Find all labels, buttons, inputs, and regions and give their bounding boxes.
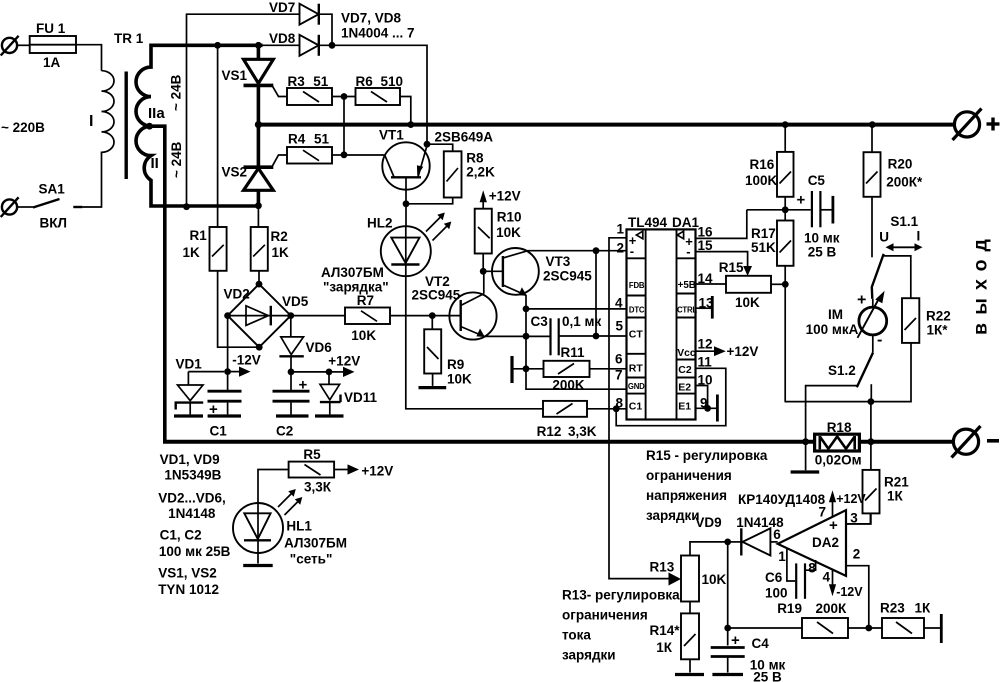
wire R21 net up [870, 402, 872, 442]
diode VD9 [728, 528, 778, 555]
pin numbers left [615, 222, 625, 411]
wire [400, 97, 411, 123]
transformer core [124, 72, 127, 180]
node [224, 312, 231, 319]
svg-text:+: + [797, 192, 806, 209]
switch S1.1 blade [872, 254, 884, 299]
svg-text:1К: 1К [887, 489, 904, 504]
svg-text:10 мк: 10 мк [804, 231, 840, 246]
potentiometer R15 [696, 276, 786, 293]
svg-text:51K: 51K [751, 240, 776, 255]
resistor R16 [777, 126, 794, 210]
resistor R23 [882, 618, 940, 638]
resistor R20 [864, 126, 881, 257]
svg-text:+12V: +12V [727, 344, 759, 359]
label VT2 [412, 274, 461, 303]
label R22 1K [926, 309, 951, 338]
svg-text:C4: C4 [752, 636, 770, 651]
wire feedback net [785, 343, 912, 402]
svg-text:АЛ307БМ: АЛ307БМ [284, 536, 347, 551]
svg-text:VD7: VD7 [269, 0, 295, 15]
label R11 200K [552, 345, 585, 393]
svg-text:II: II [151, 155, 159, 172]
wire pin16 [696, 210, 747, 239]
svg-text:100 мк 25В: 100 мк 25В [159, 544, 231, 559]
svg-text:1N4004 ... 7: 1N4004 ... 7 [341, 26, 415, 41]
wire pin2 [846, 566, 869, 628]
node tap [146, 123, 153, 130]
node [480, 268, 487, 275]
wire [332, 96, 356, 98]
svg-text:VT1: VT1 [379, 128, 404, 143]
svg-text:200К*: 200К* [886, 175, 923, 190]
wire center tap to negative rail [150, 126, 165, 442]
label R13 10K [650, 560, 727, 588]
node [865, 625, 872, 632]
svg-text:2SC945: 2SC945 [543, 269, 592, 284]
node [256, 344, 263, 351]
wire bridge left to C1 [227, 316, 229, 391]
svg-text:Vcc: Vcc [677, 348, 696, 359]
svg-text:10K: 10K [447, 372, 472, 387]
wire pin1 C6 [787, 549, 795, 582]
wire R4 to VT1 base [344, 154, 385, 156]
svg-text:+12V: +12V [328, 354, 360, 369]
label R19 200K [777, 601, 847, 616]
transformer TR1 primary winding I [102, 71, 115, 188]
svg-text:R15 - регулировка: R15 - регулировка [646, 448, 768, 463]
resistor R14 [681, 602, 699, 673]
arrow U-I double [886, 243, 923, 251]
wire R19 feed [728, 627, 802, 629]
svg-text:напряжения: напряжения [646, 488, 727, 503]
capacitor C5 [797, 191, 832, 227]
svg-text:12: 12 [698, 337, 713, 352]
meter IM [857, 291, 887, 353]
input terminal top [1, 36, 19, 56]
node [523, 365, 530, 372]
svg-text:6: 6 [615, 352, 623, 367]
svg-text:R1: R1 [190, 228, 208, 243]
svg-text:R17: R17 [751, 226, 776, 241]
svg-text:8: 8 [616, 396, 624, 411]
svg-text:S1.2: S1.2 [828, 363, 856, 378]
svg-text:7: 7 [615, 368, 623, 383]
label VT3 [543, 254, 592, 284]
svg-text:4: 4 [615, 296, 623, 311]
node [329, 42, 336, 49]
label R10 10K [496, 210, 521, 241]
node [287, 312, 294, 319]
svg-text:S1.1: S1.1 [890, 214, 918, 229]
label VD7 VD8 type [341, 11, 415, 41]
svg-text:6: 6 [773, 527, 781, 542]
wire VS1 gate [273, 86, 288, 96]
node [429, 312, 436, 319]
svg-text:-: - [877, 332, 882, 349]
svg-text:зарядки: зарядки [562, 648, 616, 663]
svg-text:0,1 мк: 0,1 мк [562, 314, 602, 329]
resistor R6 [356, 88, 401, 105]
svg-text:R16: R16 [750, 157, 775, 172]
resistor R5 [258, 462, 348, 503]
svg-text:+12V: +12V [361, 464, 393, 479]
resistor R17 [777, 210, 794, 402]
resistor R2 [251, 227, 268, 271]
label C6 100 [765, 570, 788, 601]
node [183, 203, 190, 210]
negative rail [163, 440, 953, 444]
IC DA1 TL494 body [627, 229, 696, 419]
svg-text:200K: 200K [552, 378, 585, 393]
wire [513, 368, 544, 370]
svg-text:VD11: VD11 [344, 390, 378, 405]
diode VD11 zener [320, 372, 341, 415]
wire [291, 371, 329, 373]
svg-text:~ 220В: ~ 220В [1, 120, 45, 135]
svg-text:HL1: HL1 [286, 519, 312, 534]
resistor R10 [475, 209, 492, 272]
power arrow -12V [231, 353, 261, 377]
svg-text:R22: R22 [926, 309, 951, 324]
node [255, 202, 262, 209]
wire VT3 collector to pin2 [527, 250, 626, 252]
label R18 0,02Om [815, 420, 862, 468]
svg-text:1K: 1K [272, 245, 290, 260]
svg-text:U: U [879, 230, 889, 245]
svg-text:0,02Ом: 0,02Ом [815, 453, 862, 468]
svg-text:10K: 10K [735, 295, 760, 310]
svg-text:зарядки: зарядки [646, 508, 700, 523]
diode VD7 [300, 4, 319, 25]
label R15 10K [719, 260, 760, 310]
svg-text:VD7, VD8: VD7, VD8 [341, 11, 402, 26]
label VD9 1N4148 [695, 515, 784, 530]
svg-text:DA2: DA2 [812, 535, 839, 550]
label R4 51 [288, 132, 330, 147]
svg-text:51: 51 [313, 74, 329, 89]
capacitor C4 [711, 632, 745, 673]
label R5 3,3K [303, 447, 331, 495]
wire VS2 gate [273, 155, 288, 166]
label TL494 DA1 [628, 215, 699, 230]
LED HL1 arrows [278, 489, 302, 515]
node [782, 206, 789, 213]
svg-text:1A: 1A [43, 55, 61, 70]
wire R3 R4 link [343, 97, 345, 155]
ground C2 [276, 414, 309, 417]
svg-text:1: 1 [778, 549, 786, 564]
svg-text:8: 8 [808, 561, 816, 576]
label FU1 [36, 21, 66, 70]
svg-text:VT3: VT3 [546, 254, 571, 269]
label R20 200K [886, 157, 923, 190]
svg-text:DTC: DTC [629, 306, 645, 315]
wire R2 top feed [257, 206, 259, 227]
svg-text:R23: R23 [880, 601, 905, 616]
svg-text:R4: R4 [288, 132, 306, 147]
svg-text:VS1: VS1 [222, 68, 248, 83]
wire VD8 cathode to VT1 emitter [319, 45, 427, 144]
svg-text:VD1: VD1 [176, 357, 203, 372]
svg-text:выход: выход [970, 231, 992, 335]
svg-text:RT: RT [629, 363, 644, 375]
wire R2 to bridge top [258, 271, 260, 284]
arrow R15 wiper [743, 266, 752, 276]
svg-text:1К: 1К [656, 640, 673, 655]
svg-text:CTRL: CTRL [677, 306, 697, 315]
svg-text:-12V: -12V [836, 585, 863, 599]
bridge VD2-VD5 diamond [228, 284, 291, 347]
svg-text:АЛ307БМ: АЛ307БМ [321, 265, 384, 280]
IC cell labels left [628, 231, 645, 412]
svg-text:C1: C1 [629, 401, 643, 413]
svg-text:R3: R3 [288, 74, 306, 89]
svg-text:C6: C6 [765, 570, 783, 585]
ground pin9 bar [716, 395, 719, 422]
resistor R19 [802, 618, 882, 638]
node [341, 151, 348, 158]
label R21 1K [884, 475, 909, 504]
svg-text:VD2...VD6,: VD2...VD6, [158, 491, 226, 506]
svg-text:VS1, VS2: VS1, VS2 [158, 566, 217, 581]
svg-text:C5: C5 [808, 173, 826, 188]
main positive bus [258, 123, 954, 127]
svg-text:"сеть": "сеть" [290, 552, 333, 567]
resistor R8 [444, 151, 462, 197]
node [424, 141, 431, 148]
svg-text:FDB: FDB [629, 281, 645, 290]
power arrow +12V pin12 [696, 344, 759, 359]
node [255, 42, 262, 49]
svg-text:TL494: TL494 [628, 215, 668, 230]
transistor VT1 [382, 142, 429, 204]
svg-text:11: 11 [698, 355, 713, 370]
wire [406, 198, 453, 204]
wire pin15 to R15 wiper [696, 252, 748, 267]
node [326, 369, 333, 376]
svg-text:E1: E1 [678, 401, 691, 413]
wire [319, 14, 332, 45]
svg-text:ограничения: ограничения [562, 608, 648, 623]
IC cell labels right [677, 231, 697, 412]
svg-text:C3: C3 [531, 314, 549, 329]
wire [332, 154, 344, 156]
svg-text:100: 100 [765, 586, 788, 601]
fuse FU1 [30, 36, 76, 53]
label IM 100mkA [806, 307, 859, 337]
svg-text:~ 24В: ~ 24В [169, 141, 184, 178]
svg-text:+5B: +5B [678, 280, 696, 291]
ground VD11 [315, 414, 344, 417]
node [256, 281, 263, 288]
wire R1 top feed [217, 45, 219, 227]
label U I [879, 229, 920, 245]
label C5 [804, 173, 840, 260]
svg-text:I: I [917, 229, 921, 244]
label AL307BM zaryadka [321, 265, 389, 295]
svg-text:~ 24В: ~ 24В [169, 74, 184, 111]
arrow R13 wiper [669, 573, 682, 586]
node [403, 200, 410, 207]
wire VD9 node to C4 [727, 542, 729, 646]
svg-text:510: 510 [381, 74, 404, 89]
svg-text:R18: R18 [827, 420, 852, 435]
ground VD1 [174, 414, 203, 417]
svg-text:25 В: 25 В [753, 670, 782, 682]
label R2 1K [271, 229, 290, 260]
svg-text:-: - [630, 244, 634, 259]
ground R18 [791, 442, 820, 472]
svg-text:R14*: R14* [650, 623, 681, 638]
svg-text:1К*: 1К* [927, 323, 949, 338]
label R23 1K [880, 601, 931, 616]
svg-text:+: + [731, 632, 740, 649]
svg-text:25 В: 25 В [808, 245, 837, 260]
svg-text:R8: R8 [466, 151, 484, 166]
wire pin4 [526, 308, 627, 310]
svg-text:КР140УД1408: КР140УД1408 [738, 492, 826, 507]
node [255, 121, 262, 128]
ground R23 bar [940, 614, 943, 643]
diode VD6 [279, 316, 303, 391]
diode VD1 zener [175, 372, 225, 415]
capacitor C6 [796, 560, 815, 599]
svg-text:2SC945: 2SC945 [412, 288, 461, 303]
svg-text:ограничения: ограничения [646, 468, 732, 483]
svg-text:3: 3 [850, 511, 858, 526]
svg-text:1N5349B: 1N5349B [164, 468, 221, 483]
svg-text:I: I [89, 113, 93, 130]
output terminal minus [952, 426, 1000, 458]
svg-text:+12V: +12V [836, 492, 866, 506]
svg-text:100K: 100K [745, 173, 778, 188]
label R14 1K [650, 623, 681, 655]
switch S1.2 blade [857, 353, 873, 388]
label R16 100K [745, 157, 778, 188]
node [782, 121, 789, 128]
LED HL2 arrows [426, 213, 451, 241]
wire VT2 emitter [484, 335, 550, 337]
svg-text:тока: тока [562, 628, 591, 643]
node [868, 398, 875, 405]
svg-text:10K: 10K [702, 572, 727, 587]
svg-text:E2: E2 [678, 382, 691, 394]
svg-text:R12: R12 [537, 424, 562, 439]
svg-text:200К: 200К [816, 601, 848, 616]
ground HL1 [243, 564, 273, 567]
node [782, 281, 789, 288]
wire S1.2 contact [870, 384, 872, 401]
LED HL2 [381, 226, 431, 276]
svg-text:IIa: IIa [148, 105, 165, 122]
wire HL2 cathode to R12 [406, 276, 543, 409]
svg-text:-: - [686, 244, 690, 259]
svg-text:R13- регулировка: R13- регулировка [562, 588, 680, 603]
svg-text:C2: C2 [276, 424, 293, 439]
svg-text:3,3K: 3,3K [568, 424, 597, 439]
svg-text:2,2K: 2,2K [466, 165, 495, 180]
svg-text:R19: R19 [777, 601, 802, 616]
resistor R9 [424, 316, 441, 386]
svg-text:SA1: SA1 [39, 182, 66, 197]
wire pin13 [696, 307, 712, 309]
capacitor C2 [273, 377, 310, 415]
svg-text:2: 2 [853, 547, 861, 562]
node [407, 121, 414, 128]
svg-text:R7: R7 [357, 293, 374, 308]
node -12V [224, 368, 231, 375]
svg-text:R9: R9 [447, 357, 464, 372]
wire VD7 feed [187, 14, 300, 207]
ground C4 [712, 673, 743, 676]
label R15 regulation note [646, 448, 768, 523]
ground C5 bar [832, 196, 835, 224]
label R1 1K [183, 228, 208, 260]
node [724, 539, 731, 546]
wire pin1 stub to R13 [609, 238, 669, 579]
thyristor VS2 [244, 125, 274, 206]
node [593, 333, 600, 340]
wire node to C5 [747, 209, 811, 211]
label R9 10K [447, 357, 472, 387]
wire R1 to bridge bottom [218, 271, 260, 347]
capacitor C3 [551, 318, 627, 355]
resistor R1 [210, 227, 227, 271]
svg-text:1К: 1К [915, 601, 932, 616]
svg-text:10K: 10K [496, 225, 521, 240]
svg-text:R5: R5 [303, 447, 321, 462]
pin numbers right [698, 225, 715, 411]
label R3 51 [288, 74, 329, 89]
wire [76, 45, 102, 71]
svg-text:100 мкА: 100 мкА [806, 322, 859, 337]
node [593, 247, 600, 254]
LED HL1 [233, 503, 283, 564]
resistor R3 [287, 88, 332, 105]
node [523, 306, 530, 313]
shunt R18 [815, 434, 860, 451]
svg-text:R11: R11 [561, 345, 586, 360]
wire pin2 to pin5 link [595, 251, 597, 336]
label R6 510 [356, 74, 404, 89]
svg-text:+: + [857, 292, 866, 309]
svg-text:2SB649A: 2SB649A [435, 130, 494, 145]
label HL1 [284, 519, 347, 567]
wire VT2 collector up [483, 271, 485, 293]
ground C3 [510, 356, 513, 383]
diode VD8 [263, 35, 319, 56]
svg-text:CT: CT [629, 329, 644, 341]
svg-text:VS2: VS2 [222, 165, 248, 180]
wire S1.2 to rail [806, 386, 857, 442]
transistor VT2 [432, 292, 496, 339]
resistor R12 [543, 401, 627, 417]
power arrow +12V R5 [348, 464, 394, 479]
svg-text:7: 7 [819, 505, 827, 520]
svg-text:4: 4 [823, 570, 831, 585]
node [704, 405, 711, 412]
node [868, 438, 875, 445]
label C4 [750, 636, 786, 682]
svg-text:TR 1: TR 1 [114, 31, 144, 46]
power arrow +12V pin7 [819, 490, 867, 519]
svg-text:-12V: -12V [232, 353, 261, 368]
wire [427, 144, 453, 151]
svg-text:TYN 1012: TYN 1012 [158, 582, 219, 597]
power arrow -12V pin4 [823, 570, 864, 600]
svg-text:1N4148: 1N4148 [168, 506, 216, 521]
